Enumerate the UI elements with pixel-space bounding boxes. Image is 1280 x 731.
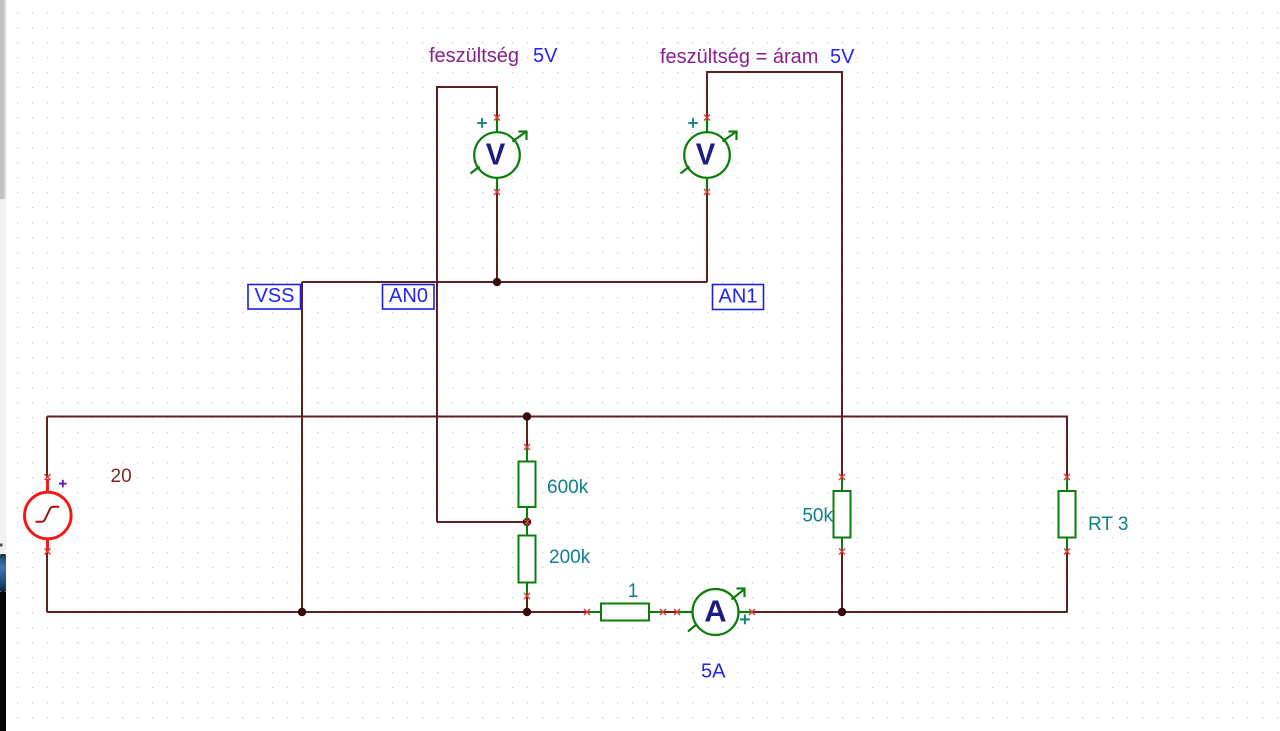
pin RT3 bottom (1064, 549, 1070, 555)
pin RT3 top (1064, 474, 1070, 480)
svg-text:VSS: VSS (254, 285, 294, 307)
svg-text:AN0: AN0 (389, 285, 428, 307)
wire V2 bottom vertical (706, 192, 708, 282)
junction dot top rail / 600k (523, 412, 531, 420)
resistor R1 horizontal (587, 604, 663, 621)
wire VSS vertical (301, 282, 303, 612)
pin 200k bottom (524, 593, 530, 599)
voltage source VG1 (25, 479, 72, 551)
net label AN1 (713, 285, 764, 310)
pin 50k top (839, 474, 845, 480)
pin V2 bottom (704, 189, 710, 195)
svg-text:5A: 5A (701, 661, 726, 683)
pin V1 top (494, 115, 500, 121)
svg-text:feszültség: feszültség (429, 45, 519, 67)
resistor RT 3 (1059, 477, 1076, 552)
svg-text:1: 1 (628, 581, 639, 602)
wire 600k top (526, 417, 528, 448)
wire V1 loop left vertical (AN0 net) (436, 86, 438, 522)
wire RT3 bottom (1066, 552, 1068, 613)
plus sign of source (59, 480, 67, 488)
left window chrome: light strip (0, 199, 7, 554)
pin 50k bottom (839, 549, 845, 555)
junction dot divider tap (523, 518, 531, 526)
svg-text:20: 20 (111, 466, 132, 487)
svg-text:5V: 5V (830, 46, 855, 68)
svg-text:AN1: AN1 (719, 286, 758, 308)
pin source top (45, 474, 51, 480)
svg-text:V: V (696, 136, 716, 171)
left window chrome: dark tick (0, 544, 3, 547)
voltmeter U2 (feszültség = áram) (681, 117, 737, 192)
step waveform glyph (36, 507, 60, 522)
wire top rail (47, 416, 1068, 418)
svg-text:200k: 200k (549, 547, 591, 568)
left window chrome: black strip (0, 592, 6, 731)
wire right tall vertical to 50k (841, 72, 843, 477)
svg-text:feszültség = áram: feszültség = áram (660, 46, 818, 68)
wire V1 loop top (436, 86, 498, 88)
pin x marks (45, 115, 1071, 616)
svg-text:600k: 600k (547, 477, 589, 498)
svg-text:V: V (486, 136, 506, 171)
wire V2 top terminal (706, 72, 708, 117)
resistor R 200k (519, 522, 536, 596)
net label VSS (248, 285, 301, 310)
ammeter U3 (677, 588, 752, 636)
wire V1 bottom to mid node (496, 192, 498, 282)
svg-text:50k: 50k (802, 506, 833, 527)
wire 50k bottom (841, 552, 843, 613)
wire bottom rail left (47, 611, 587, 613)
wire mid horizontal VSS-to-V2 (302, 281, 707, 283)
junction dot bottom rail / 200k (523, 608, 531, 616)
resistor R 600k (519, 447, 536, 522)
wire 200k bottom (526, 596, 528, 612)
svg-text:5V: 5V (533, 45, 558, 67)
wire bottom rail right (752, 611, 1067, 613)
pin V1 bottom (494, 189, 500, 195)
resistor R 50k (834, 477, 851, 552)
net label AN0 (383, 285, 435, 310)
pin divider tap (524, 519, 530, 525)
left window chrome: blue button (0, 554, 6, 592)
wire V1 top terminal (496, 87, 498, 117)
pin 600k top (524, 444, 530, 450)
voltmeter U1 (feszültség) (471, 117, 527, 192)
pin ammeter left (674, 609, 680, 615)
svg-text:A: A (704, 594, 726, 629)
pin R1 right (660, 609, 666, 615)
left window chrome: gray strip (0, 0, 5, 199)
wire source bottom (46, 551, 48, 612)
pin R1 left (584, 609, 590, 615)
wire between R1 and ammeter (663, 611, 677, 613)
junction dot bottom rail / VSS (298, 608, 306, 616)
wire source top (46, 417, 48, 479)
wire RT3 top (1066, 416, 1068, 478)
pin ammeter right (749, 609, 755, 615)
junction dot mid node (493, 278, 501, 286)
wire V2 loop top (706, 71, 843, 73)
pin V2 top (704, 115, 710, 121)
svg-text:RT 3: RT 3 (1088, 514, 1129, 535)
pin source bottom (45, 549, 51, 555)
junction dot bottom rail / 50k (838, 608, 846, 616)
wire AN0 horizontal to divider tap (437, 521, 527, 523)
